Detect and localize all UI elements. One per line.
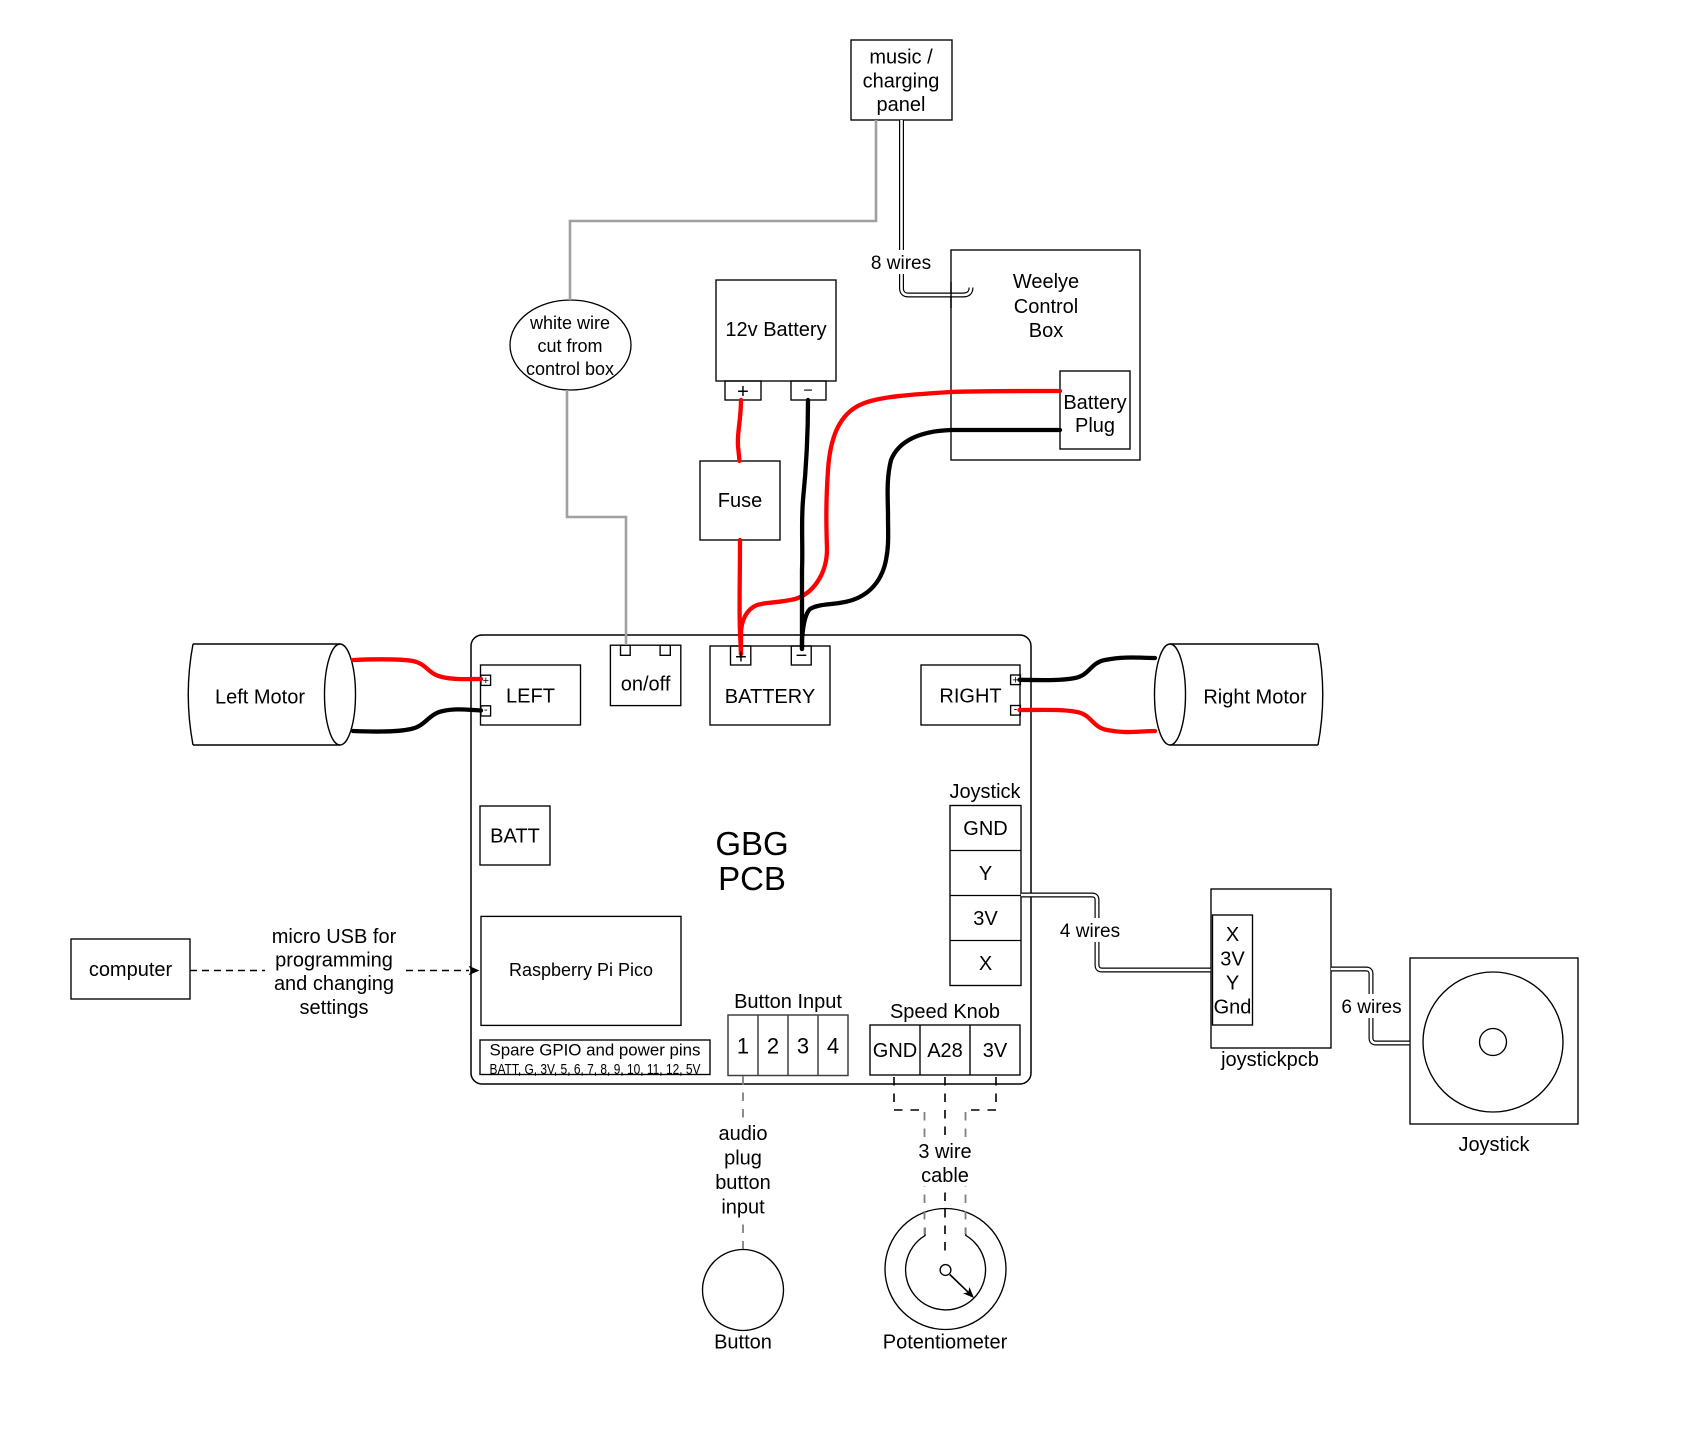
left motor cylinder [188,644,355,745]
white wire ellipse [510,300,631,390]
svg-text:computer: computer [89,959,173,981]
svg-text:micro USB for: micro USB for [272,926,397,948]
svg-text:Weelye: Weelye [1013,271,1079,293]
GBG PCB board outline [471,635,1031,1084]
svg-text:3V: 3V [1220,949,1245,971]
svg-text:Battery: Battery [1063,392,1126,414]
svg-text:+: + [737,381,749,403]
svg-text:cut from: cut from [537,336,602,356]
gray wire lower segment: ellipse to on/off pin [567,390,626,645]
Joystick header column (GND/Y/3V/X) [950,806,1021,986]
Raspberry Pi Pico box [481,916,681,1025]
svg-text:BATT, G, 3V, 5, 6, 7, 8, 9, 10: BATT, G, 3V, 5, 6, 7, 8, 9, 10, 11, 12, … [490,1061,701,1078]
svg-text:X: X [1226,924,1239,946]
svg-text:Control: Control [1014,296,1078,318]
svg-text:3: 3 [797,1034,809,1059]
BATTERY connector box [710,646,830,725]
svg-text:1: 1 [737,1034,749,1059]
svg-text:plug: plug [724,1148,762,1170]
right motor black wire [1020,658,1156,681]
svg-text:−: − [796,645,808,667]
svg-text:-: - [1014,704,1018,716]
arrowhead at pico [469,966,480,975]
Battery Plug box [1060,371,1130,449]
svg-text:4 wires: 4 wires [1060,921,1120,942]
joystickpcb pin box [1213,915,1253,1025]
dashed A28 to potentiometer [944,1077,946,1258]
svg-text:+: + [483,675,489,687]
6 wires double line [1331,969,1410,1043]
svg-text:Y: Y [979,863,992,885]
left motor black wire [353,709,481,731]
svg-text:3V: 3V [973,908,998,930]
svg-text:cable: cable [921,1165,969,1187]
svg-text:LEFT: LEFT [506,686,555,708]
svg-text:−: − [803,383,812,400]
BOXES [71,40,1578,1331]
svg-text:GBG: GBG [715,825,788,862]
LEFT - pin [481,706,491,716]
svg-text:BATTERY: BATTERY [725,686,815,708]
LEFT + pin [481,675,491,685]
svg-text:input: input [721,1197,765,1219]
black wires [353,400,1155,732]
svg-text:white wire: white wire [529,313,610,333]
12v battery - terminal [791,381,826,400]
svg-text:6 wires: 6 wires [1341,997,1401,1018]
svg-text:Plug: Plug [1075,415,1115,437]
joystickpcb box [1211,889,1331,1048]
svg-text:Joystick: Joystick [949,781,1021,803]
svg-text:Y: Y [1226,973,1239,995]
red wire: 12v battery + to fuse [738,400,741,461]
svg-text:audio: audio [719,1123,768,1145]
svg-text:Gnd: Gnd [1214,997,1252,1019]
Potentiometer center dot [940,1265,951,1276]
svg-text:button: button [715,1172,771,1194]
BATT box [480,806,550,865]
svg-text:+: + [1012,675,1018,687]
potentiometer arrow [950,1275,974,1299]
dashed: computer to pico [190,970,469,972]
svg-text:4: 4 [827,1034,839,1059]
Button circle [703,1250,784,1331]
svg-text:-: - [484,704,488,716]
on/off pin 2 [660,645,670,655]
right motor red wire [1020,710,1156,732]
on/off pin 1 [621,645,631,655]
svg-text:charging: charging [863,71,940,93]
RIGHT - pin [1011,706,1021,716]
svg-text:3V: 3V [983,1040,1008,1062]
dashed 3V to potentiometer elbow [966,1077,997,1110]
dashed GND to potentiometer elbow [894,1077,925,1110]
LABEL BACKGROUNDS [265,250,1404,1217]
svg-text:programming: programming [275,950,393,972]
RIGHT + pin [1011,675,1021,685]
svg-text:on/off: on/off [621,674,671,696]
svg-text:settings: settings [300,997,369,1019]
12v Battery box [716,280,836,381]
Joystick box [1410,958,1578,1124]
BATTERY - pin [791,646,811,665]
Button Input cells (gray strokes) [728,1015,848,1076]
svg-text:panel: panel [877,94,926,116]
svg-text:Right Motor: Right Motor [1203,687,1307,709]
svg-text:RIGHT: RIGHT [939,686,1001,708]
LEFT connector box [481,665,581,725]
red wire: fuse to BATTERY + pin [740,540,741,654]
svg-text:+: + [735,647,747,669]
Joystick small circle [1480,1029,1507,1056]
svg-text:GND: GND [873,1040,917,1062]
black wire from Battery Plug [802,430,1060,649]
svg-text:Joystick: Joystick [1458,1134,1530,1156]
svg-text:Spare GPIO and power pins: Spare GPIO and power pins [490,1041,701,1059]
red wires [353,391,1155,732]
music / charging panel box [851,40,952,120]
svg-text:12v Battery: 12v Battery [725,319,826,341]
svg-text:PCB: PCB [718,860,786,897]
4 wires double line [1021,895,1211,970]
svg-text:BATT: BATT [490,826,540,848]
computer box [71,939,190,999]
Joystick outer circle [1423,972,1563,1112]
svg-text:A28: A28 [927,1040,963,1062]
svg-text:GND: GND [963,818,1007,840]
svg-text:Button: Button [714,1332,772,1354]
dashed gray wire down right [965,1112,967,1234]
red wire from Battery Plug [741,391,1060,654]
svg-text:X: X [979,953,992,975]
Spare GPIO box [480,1040,710,1075]
on/off box [610,645,680,705]
svg-text:Fuse: Fuse [718,490,762,512]
black wire: 12v battery - to BATTERY - pin [802,400,808,649]
svg-text:8 wires: 8 wires [871,253,931,274]
Potentiometer inner arc with top gap [906,1228,986,1310]
svg-text:Left Motor: Left Motor [215,687,305,709]
dashed: button input 1 to Button [743,1076,996,1258]
RIGHT connector box [921,665,1020,725]
12v battery + terminal [725,381,761,400]
svg-text:Speed Knob: Speed Knob [890,1001,1000,1023]
8 wires double line [902,120,972,308]
svg-text:joystickpcb: joystickpcb [1220,1049,1319,1071]
svg-text:Potentiometer: Potentiometer [883,1332,1008,1354]
svg-text:3 wire: 3 wire [918,1141,971,1163]
Weelye border over 8-wires [950,282,952,308]
BATTERY + pin [731,646,751,665]
svg-text:2: 2 [767,1034,779,1059]
right motor cylinder [1155,644,1323,745]
Potentiometer outer circle [885,1209,1006,1330]
gray wire upper segment: music panel to ellipse [570,120,876,300]
dashed gray wire down left [924,1112,926,1234]
svg-text:control box: control box [526,359,614,379]
gray wire: music panel to ellipse to on/off [567,120,876,645]
svg-text:Button Input: Button Input [734,991,842,1013]
Speed Knob cells [870,1025,1020,1075]
svg-text:and changing: and changing [274,973,394,995]
svg-text:Box: Box [1029,320,1063,342]
left motor red wire [353,659,481,679]
fuse box [700,461,780,540]
svg-text:music /: music / [869,47,933,69]
Weelye Control Box [951,250,1140,460]
svg-text:Raspberry Pi Pico: Raspberry Pi Pico [509,960,653,980]
